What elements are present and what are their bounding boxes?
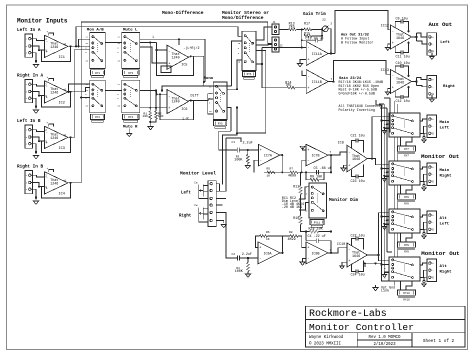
op-amp IC13 That 1646 <box>391 70 412 94</box>
ground connector <box>424 133 427 136</box>
relay coil RY7 <box>398 146 416 151</box>
svg-text:G: G <box>432 228 434 231</box>
wire to IC9B input <box>302 236 306 248</box>
svg-text:Sheet 1 of 2: Sheet 1 of 2 <box>423 339 455 344</box>
svg-text:IC1: IC1 <box>59 56 65 60</box>
svg-text:IC6: IC6 <box>181 108 187 112</box>
connector Main Right <box>427 163 437 186</box>
svg-text:-: - <box>307 75 309 79</box>
svg-text:-: - <box>259 258 261 262</box>
ground IC8 <box>344 165 348 168</box>
connector Alt Left <box>427 211 437 234</box>
resistor R7 4K99 <box>275 171 290 173</box>
ground connector <box>424 229 427 232</box>
svg-text:RY3: RY3 <box>128 72 133 75</box>
svg-text:-: - <box>392 30 394 34</box>
wire bus through <box>394 185 396 209</box>
svg-text:100K: 100K <box>235 270 244 274</box>
wire bus ch2 to Mon A/B <box>71 88 90 92</box>
wire bus to Alt Right <box>379 255 390 261</box>
svg-text:IC11A: IC11A <box>312 52 322 56</box>
svg-text:J1: J1 <box>273 21 277 24</box>
svg-text:-: - <box>307 47 309 51</box>
wire IC7B feedback <box>328 154 331 156</box>
wire switch to connector <box>420 215 427 217</box>
wire bus IC8 to Main Left <box>367 117 389 159</box>
svg-text:-: - <box>307 258 309 262</box>
svg-text:Left: Left <box>440 40 450 45</box>
svg-text:Mono: Mono <box>204 77 214 81</box>
svg-text:G=Gnd=10K +/-0.5dB: G=Gnd=10K +/-0.5dB <box>339 91 375 96</box>
svg-text:L: L <box>153 35 155 39</box>
resistor R5 1K <box>264 171 267 173</box>
svg-text:Left In B: Left In B <box>17 119 41 124</box>
svg-text:Mono/Difference: Mono/Difference <box>222 15 264 21</box>
svg-text:1246: 1246 <box>50 91 58 95</box>
svg-text:+: + <box>307 87 309 91</box>
svg-text:-: - <box>432 86 434 89</box>
svg-text:Left: Left <box>440 221 450 226</box>
svg-text:+: + <box>432 36 434 39</box>
switch Monitor Stereo RY6 <box>242 31 256 70</box>
wires connector right side <box>216 184 219 192</box>
op-amp IC4 That 1246 <box>45 172 69 194</box>
op-amp IC5 That 1240 <box>167 45 189 69</box>
svg-text:C12 10u: C12 10u <box>396 100 410 104</box>
svg-text:RY7: RY7 <box>404 155 409 158</box>
relay coil RY10 <box>398 290 416 295</box>
svg-text:RY7: RY7 <box>404 148 409 151</box>
wire input to op-amp <box>31 84 45 86</box>
IC5 feedback loop <box>157 49 168 51</box>
wire Mute L out 2 <box>140 47 167 63</box>
svg-text:4K99: 4K99 <box>288 175 296 179</box>
ground switch Main Right <box>385 176 390 178</box>
ground connector <box>424 181 427 184</box>
svg-text:7: 7 <box>331 78 333 81</box>
wire IC5 out to Mono <box>189 56 214 86</box>
svg-text:Polarity Inverting: Polarity Inverting <box>339 108 375 113</box>
svg-text:IC3: IC3 <box>59 147 65 151</box>
svg-text:IC8: IC8 <box>338 142 344 146</box>
switch Monitor Dim <box>309 183 327 218</box>
wire Mute R out 2 <box>140 107 167 109</box>
svg-text:+: + <box>47 167 49 170</box>
svg-text:B Follow Monitor: B Follow Monitor <box>341 40 373 45</box>
resistor R17 <box>304 28 312 31</box>
wire bus IC10 to Alt Left <box>367 213 389 255</box>
svg-text:-: - <box>432 269 434 272</box>
svg-text:Mute L: Mute L <box>123 29 138 33</box>
svg-text:2/19/2023: 2/19/2023 <box>373 342 396 347</box>
svg-text:IC2: IC2 <box>59 101 65 105</box>
svg-text:+: + <box>432 118 434 121</box>
svg-text:+: + <box>432 166 434 169</box>
ground IC9B <box>303 258 307 262</box>
wire jumper to gain trim <box>279 28 289 30</box>
svg-text:G: G <box>432 276 434 279</box>
svg-text:-: - <box>307 160 309 164</box>
svg-text:100K: 100K <box>234 159 243 163</box>
connector J3 Left In B <box>25 125 33 148</box>
wire Mute L out to IC5 <box>140 41 157 43</box>
svg-text:-(L+R)/2: -(L+R)/2 <box>183 46 199 51</box>
svg-text:RY10: RY10 <box>403 292 410 295</box>
wire stereo out to jumpers <box>256 27 272 40</box>
wire switch to relay <box>400 281 402 290</box>
connector Aux Right <box>427 75 437 98</box>
svg-text:-: - <box>392 75 394 79</box>
wire trimpot to output node <box>328 29 331 54</box>
wire bus through <box>394 281 396 286</box>
ground <box>31 189 36 199</box>
op-amp IC10 That 1646 <box>347 243 367 267</box>
resistor R15 <box>304 35 312 38</box>
IC6 feedback loop <box>157 93 168 95</box>
ground R1 R2 <box>150 119 156 122</box>
connector Alt Right <box>427 259 437 282</box>
connector Aux Left <box>427 33 437 56</box>
op-amp feedback wires <box>49 170 54 172</box>
svg-text:C9 10u: C9 10u <box>396 18 408 22</box>
svg-text:Rev 1.0 MOMCO: Rev 1.0 MOMCO <box>369 336 401 340</box>
switch Alt Left RY9 <box>389 209 420 233</box>
svg-text:RY11: RY11 <box>314 221 321 224</box>
op-amp IC7B <box>306 144 328 166</box>
svg-text:Left In A: Left In A <box>17 28 41 33</box>
wire IC6 out to Mono <box>189 99 214 101</box>
ground switch Main Left <box>385 128 390 130</box>
svg-text:Left: Left <box>181 190 191 195</box>
wire R17 to trimpot <box>312 28 323 30</box>
wire IC9B to IC10 <box>331 248 347 253</box>
svg-text:RY9: RY9 <box>404 251 409 254</box>
svg-text:RY4: RY4 <box>128 116 133 119</box>
switch Mute R <box>122 80 140 113</box>
relay coil RY8 <box>398 194 416 199</box>
svg-text:Right In A: Right In A <box>17 74 43 79</box>
svg-text:RY5: RY5 <box>218 122 223 125</box>
svg-text:R8: R8 <box>289 231 293 234</box>
svg-text:Mono-Difference: Mono-Difference <box>162 10 204 16</box>
title block row divider 2 <box>306 332 465 334</box>
wire IC11A inputs <box>302 47 306 49</box>
wire IC11B plus input <box>302 71 306 76</box>
wire bus ch3 vertical <box>71 49 90 137</box>
wire ch1 alt tap <box>79 39 90 46</box>
op-amp IC9A <box>258 242 280 264</box>
wire loop 3 <box>219 138 226 191</box>
wire IC11B output <box>328 61 390 82</box>
ground <box>31 53 36 63</box>
svg-text:1646: 1646 <box>396 81 404 85</box>
svg-text:C24 10u: C24 10u <box>351 273 365 277</box>
op-amp IC11B <box>306 70 328 94</box>
resistor R1 10K <box>149 111 152 119</box>
svg-text:+: + <box>259 247 261 251</box>
title block cell dividers <box>356 333 358 347</box>
svg-text:1240: 1240 <box>172 56 180 60</box>
connector J4 Right In B <box>25 171 33 194</box>
wire input to op-amp <box>31 130 45 132</box>
svg-text:Monitor Inputs: Monitor Inputs <box>17 18 68 25</box>
svg-text:RY8: RY8 <box>404 203 409 206</box>
svg-text:Rockmore-Labs: Rockmore-Labs <box>309 308 387 319</box>
svg-text:+: + <box>348 260 350 264</box>
op-amp IC6 That 1240 <box>167 90 189 114</box>
op-amp IC9B <box>306 242 328 264</box>
svg-text:C2: C2 <box>232 253 236 256</box>
op-amp IC1 That 1246 <box>45 35 69 57</box>
svg-text:+: + <box>348 165 350 169</box>
svg-text:+: + <box>432 262 434 265</box>
svg-text:+: + <box>168 107 170 111</box>
svg-text:1240: 1240 <box>172 101 180 105</box>
wire bus ch4 vertical / top bus T1 <box>71 22 272 183</box>
svg-text:Right In B: Right In B <box>17 165 43 170</box>
svg-text:IC13: IC13 <box>381 69 389 73</box>
wire IC12 output to connector <box>412 36 417 38</box>
svg-text:Cw: Cw <box>194 181 198 184</box>
IC5 inner box <box>161 66 171 73</box>
svg-text:Alt: Alt <box>440 216 448 221</box>
svg-text:2.2uF: 2.2uF <box>242 253 252 257</box>
svg-text:+: + <box>307 149 309 153</box>
svg-text:RY8: RY8 <box>404 196 409 199</box>
svg-text:-: - <box>168 50 170 54</box>
svg-text:IC9A: IC9A <box>264 251 272 255</box>
svg-text:Monitor Out: Monitor Out <box>421 153 459 160</box>
svg-text:-: - <box>432 173 434 176</box>
ground IC11A <box>297 64 302 67</box>
resistor R8 4K99 <box>276 235 291 237</box>
wire L bus top <box>140 39 205 82</box>
svg-text:+: + <box>47 121 49 124</box>
svg-text:7: 7 <box>330 151 332 154</box>
trimpot RV1 22 <box>322 26 328 32</box>
relay coil RY9 <box>398 242 416 247</box>
wire IC13 output to connector <box>412 81 417 83</box>
svg-text:-: - <box>432 221 434 224</box>
svg-text:22: 22 <box>322 18 326 21</box>
svg-text:Monitor Out: Monitor Out <box>421 250 459 257</box>
wire IC7B out to IC8 <box>331 152 347 155</box>
relay coil RY4 <box>123 114 139 119</box>
svg-text:Mute R: Mute R <box>123 126 138 130</box>
wire mono out B <box>227 108 231 132</box>
ground IC12 <box>388 44 391 48</box>
svg-text:RY1: RY1 <box>95 72 100 75</box>
wire IC11A to IC12 <box>335 11 391 54</box>
svg-text:RY10: RY10 <box>403 299 410 302</box>
wire long bus B <box>383 104 385 272</box>
wire switch to connector <box>420 119 427 121</box>
connector Main Left <box>427 115 437 138</box>
switch Main Right RY8 <box>389 161 420 185</box>
switch Main Left RY7 <box>389 113 420 137</box>
ground below Mute R <box>128 129 130 134</box>
svg-text:Monitor Level: Monitor Level <box>180 171 216 177</box>
svg-text:Link: Link <box>381 289 389 294</box>
svg-text:Right: Right <box>440 269 453 274</box>
svg-text:R10: R10 <box>293 217 299 221</box>
svg-text:7: 7 <box>330 249 332 252</box>
svg-text:Cw: Cw <box>194 204 198 207</box>
op-amp feedback wires <box>49 124 54 126</box>
svg-text:Gain Trim: Gain Trim <box>303 12 326 17</box>
wire L to stereo switch <box>178 39 180 45</box>
wire bus into first switch <box>394 101 396 113</box>
relay coil RY5 <box>214 121 227 126</box>
svg-text:Wayne Kirkwood: Wayne Kirkwood <box>309 335 344 340</box>
wire R13 to R17 <box>296 28 304 30</box>
switch Alt Right RY10 <box>389 257 420 281</box>
svg-text:IC7A: IC7A <box>264 153 272 157</box>
switch Mono select <box>213 82 227 119</box>
resistor R3 100K <box>247 149 249 151</box>
svg-text:+: + <box>307 247 309 251</box>
svg-text:C21 10u: C21 10u <box>351 135 365 139</box>
relay coil RY2 <box>91 114 105 119</box>
wire long bus A <box>382 105 390 281</box>
svg-text:Alt: Alt <box>440 264 448 269</box>
wire bus ch1 to Mon A/B <box>71 45 90 47</box>
connector Monitor Level <box>208 181 216 227</box>
svg-text:-: - <box>432 125 434 128</box>
ground switch Alt Left <box>385 224 390 226</box>
svg-text:IC11B: IC11B <box>312 80 322 84</box>
svg-text:10K: 10K <box>158 114 164 118</box>
wire stereo out down loop <box>237 51 266 134</box>
svg-text:1646: 1646 <box>352 255 360 259</box>
wire stereo feed to IC11 <box>262 47 302 49</box>
svg-text:-: - <box>432 43 434 46</box>
wire IC9B out <box>328 252 331 254</box>
jumper J2 <box>272 37 279 52</box>
svg-text:IC5: IC5 <box>181 64 187 68</box>
svg-text:-20 dB 1K1: -20 dB 1K1 <box>282 205 302 210</box>
relay coil RY1 <box>91 70 105 75</box>
op-amp IC8 That 1646 <box>347 145 367 172</box>
svg-text:2.2uF: 2.2uF <box>243 142 253 146</box>
resistor R13 7K5 <box>289 28 297 31</box>
wire long bus D <box>386 108 388 252</box>
title block <box>306 306 465 347</box>
wire input to op-amp <box>31 39 45 41</box>
svg-text:C1: C1 <box>232 141 236 144</box>
svg-text:G: G <box>432 180 434 183</box>
svg-text:+: + <box>392 87 394 91</box>
resistor R2 10K <box>155 111 158 119</box>
jumper J1 <box>272 24 279 35</box>
wire R1 drop <box>149 42 151 111</box>
svg-text:Main: Main <box>440 168 450 173</box>
svg-text:Aux Out: Aux Out <box>429 21 453 28</box>
svg-text:1646: 1646 <box>352 158 360 162</box>
IC7A feedback <box>280 154 283 156</box>
svg-text:-: - <box>260 160 262 164</box>
svg-text:7K5: 7K5 <box>289 25 295 29</box>
wire switch to relay <box>400 137 402 146</box>
svg-text:Monitor Dim: Monitor Dim <box>329 197 358 203</box>
svg-text:Main: Main <box>440 120 450 125</box>
svg-text:+: + <box>432 79 434 82</box>
wire IC11A output <box>328 53 335 55</box>
svg-text:1K: 1K <box>266 238 270 241</box>
svg-text:+: + <box>392 42 394 46</box>
ground monitor level <box>221 225 226 228</box>
svg-text:IC9B: IC9B <box>312 251 320 255</box>
wire mono out A <box>227 60 242 89</box>
ground connector <box>431 95 433 99</box>
wire Mon A/B out L <box>105 41 122 43</box>
wire Mon A/B out R <box>105 90 122 92</box>
relay coil RY6 <box>243 71 256 76</box>
svg-text:J2: J2 <box>280 45 284 48</box>
wire switch to relay <box>400 185 402 194</box>
svg-text:IC4: IC4 <box>59 192 65 196</box>
svg-text:IC7B: IC7B <box>312 153 320 157</box>
wire dim taps <box>300 187 309 199</box>
svg-text:R15: R15 <box>304 32 310 36</box>
switch Mon A/B pole 1 <box>90 32 106 68</box>
svg-text:G: G <box>432 93 434 96</box>
wire R2 drop <box>155 91 157 112</box>
ground switch Alt Right <box>385 272 390 274</box>
op-amp IC2 That 1246 <box>45 81 69 103</box>
mono input network box <box>208 94 214 114</box>
svg-text:R11: R11 <box>293 186 299 190</box>
svg-text:Monitor Controller: Monitor Controller <box>309 322 414 333</box>
svg-text:1K: 1K <box>267 175 271 178</box>
wire switch to relay <box>400 233 402 242</box>
ground IC10 <box>342 262 347 266</box>
ground <box>31 144 36 154</box>
svg-text:+: + <box>307 59 309 63</box>
op-amp IC12 That 1646 <box>391 25 412 49</box>
wire R to stereo switch <box>162 86 232 91</box>
wire loop 2 <box>222 108 237 185</box>
IC9A feedback <box>280 252 283 254</box>
svg-text:+: + <box>47 76 49 79</box>
svg-text:10K: 10K <box>142 114 148 118</box>
wire Mute R out to IC6 <box>140 90 157 92</box>
wire top bus T2 <box>76 27 242 47</box>
relay coil RY11 <box>310 220 324 225</box>
wire bus through <box>394 137 396 161</box>
op-amp IC7A <box>258 144 279 166</box>
op-amp feedback wires <box>49 33 54 35</box>
svg-text:R6: R6 <box>266 231 270 234</box>
connector J1 Left In A <box>25 34 33 57</box>
op-amp IC11A <box>306 41 328 65</box>
wire level to C2 <box>226 224 232 258</box>
svg-text:IC12: IC12 <box>381 25 389 29</box>
wire loop mono to C1 <box>219 131 238 150</box>
svg-text:Mon A/B: Mon A/B <box>87 28 104 33</box>
svg-text:Right: Right <box>440 173 453 178</box>
svg-text:Right: Right <box>179 214 192 219</box>
op-amp feedback wires <box>49 79 54 81</box>
relay coil RY3 <box>123 70 139 75</box>
wire switch to connector <box>420 263 427 265</box>
wires pot to connector <box>203 185 208 187</box>
svg-text:1246: 1246 <box>50 46 58 50</box>
resistor R6 1K <box>260 235 268 238</box>
svg-text:RY6: RY6 <box>247 73 252 76</box>
svg-text:Left: Left <box>440 125 450 130</box>
ground IC13 <box>388 89 391 93</box>
